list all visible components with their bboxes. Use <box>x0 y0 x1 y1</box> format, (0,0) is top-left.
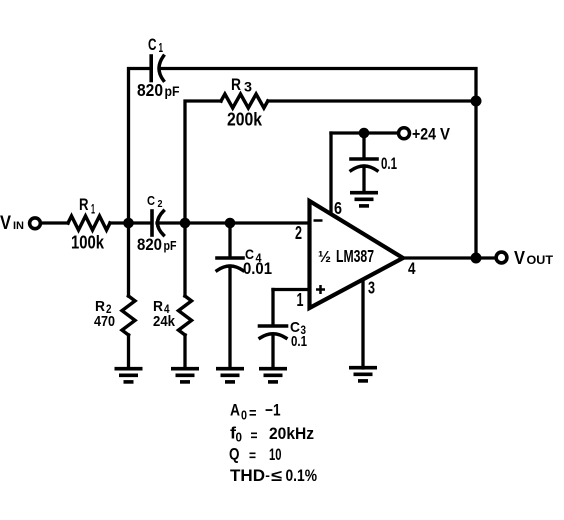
svg-text:470: 470 <box>94 313 115 330</box>
svg-text:C: C <box>148 36 157 54</box>
svg-text:=: = <box>249 405 257 422</box>
svg-text:2: 2 <box>158 198 163 210</box>
svg-text:≤: ≤ <box>271 468 282 485</box>
svg-text:½: ½ <box>318 249 331 266</box>
svg-text:Q: Q <box>229 446 240 464</box>
svg-text:4: 4 <box>408 259 416 278</box>
svg-text:+24: +24 <box>412 126 437 144</box>
svg-text:−1: −1 <box>265 402 281 420</box>
svg-text:2: 2 <box>295 223 302 243</box>
svg-text:OUT: OUT <box>527 255 554 267</box>
svg-text:820: 820 <box>137 80 163 100</box>
svg-text:0: 0 <box>236 431 243 445</box>
svg-text:0: 0 <box>241 409 247 423</box>
svg-text:200k: 200k <box>227 110 263 130</box>
svg-text:20kHz: 20kHz <box>269 425 314 443</box>
svg-text:1: 1 <box>91 202 95 217</box>
svg-text:pF: pF <box>164 238 177 253</box>
svg-text:3: 3 <box>244 79 252 95</box>
svg-text:10: 10 <box>269 446 282 464</box>
svg-text:V: V <box>440 126 450 144</box>
svg-text:R: R <box>231 76 241 94</box>
svg-text:6: 6 <box>334 198 342 218</box>
svg-text:C: C <box>147 194 155 208</box>
svg-text:LM387: LM387 <box>336 246 374 266</box>
svg-text:V: V <box>0 213 11 234</box>
svg-text:24k: 24k <box>153 313 176 330</box>
svg-text:R: R <box>79 196 89 214</box>
svg-text:1: 1 <box>297 290 304 310</box>
svg-text:0.1: 0.1 <box>291 333 307 350</box>
svg-text:=: = <box>251 428 258 445</box>
svg-text:1: 1 <box>159 41 164 55</box>
svg-text:820: 820 <box>137 236 162 254</box>
svg-text:THD: THD <box>230 467 265 485</box>
svg-text:pF: pF <box>165 83 180 99</box>
svg-text:100k: 100k <box>71 233 105 253</box>
svg-text:0.1: 0.1 <box>381 155 397 173</box>
svg-text:3: 3 <box>368 278 375 298</box>
svg-text:0.1%: 0.1% <box>286 467 318 485</box>
svg-text:V: V <box>514 247 526 268</box>
svg-text:-: - <box>265 468 270 483</box>
svg-text:A: A <box>230 402 240 420</box>
svg-text:=: = <box>249 448 256 465</box>
svg-text:0.01: 0.01 <box>243 259 272 278</box>
svg-text:IN: IN <box>13 220 24 232</box>
